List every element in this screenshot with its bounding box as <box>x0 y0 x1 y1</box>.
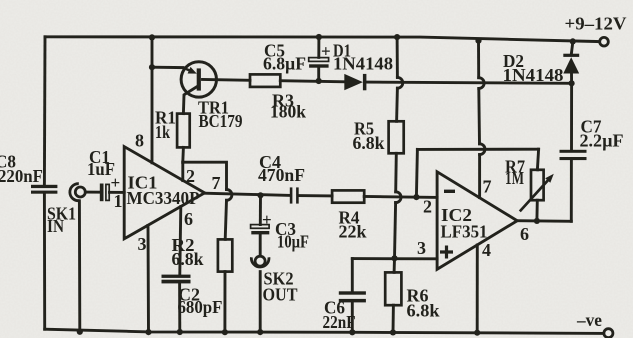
wire IC2 output <box>517 219 571 223</box>
capacitor C2 <box>162 275 223 318</box>
terminal -ve <box>576 310 613 338</box>
svg-text:3: 3 <box>417 238 426 258</box>
capacitor C6 <box>323 291 366 332</box>
wire pin7 into IC2 <box>478 155 481 198</box>
hop R5 line over D1 line <box>397 77 402 88</box>
wire pin7 mid <box>477 89 481 144</box>
wire left vertical lower <box>43 193 46 329</box>
wire IC2 pin4 to rail <box>476 245 479 333</box>
wire output riser to C7 <box>570 160 573 221</box>
wire base to R3 <box>203 78 251 82</box>
wire IC2 pin7 drop from rail <box>477 41 480 78</box>
wire pin3 corner down to C6 <box>351 259 354 292</box>
wire top rail <box>45 37 600 42</box>
svg-text:–ve: –ve <box>576 310 602 330</box>
jack SK2 <box>251 256 297 304</box>
svg-text:6.8k: 6.8k <box>353 133 385 153</box>
wire C7 top to D2 node <box>570 83 573 149</box>
svg-text:6: 6 <box>520 224 529 244</box>
svg-text:7: 7 <box>212 173 221 193</box>
svg-text:2: 2 <box>423 197 432 217</box>
op-amp IC1 <box>124 147 204 239</box>
svg-text:6.8k: 6.8k <box>172 249 204 269</box>
wire emitter feed <box>152 66 183 69</box>
svg-text:1N4148: 1N4148 <box>333 54 393 74</box>
svg-text:IN: IN <box>47 216 64 236</box>
wire IC2 pin3 run <box>352 257 437 260</box>
transistor TR1 <box>181 62 242 131</box>
svg-text:1M: 1M <box>505 168 524 188</box>
capacitor C4 <box>258 152 305 203</box>
svg-text:22nF: 22nF <box>323 312 356 332</box>
diode D2 <box>503 51 580 85</box>
wire C5 top <box>317 37 320 57</box>
wire C4 to R4 <box>299 194 333 197</box>
wire hop to R2 top <box>225 200 226 239</box>
wire SK1 ground <box>78 201 81 332</box>
resistor R3 <box>250 74 306 121</box>
hop pin7 line over feedback <box>480 144 485 155</box>
wire IC1 pin6 to C2 <box>180 207 181 275</box>
wire C2 bottom <box>178 284 181 333</box>
capacitor C1 <box>87 147 123 211</box>
wire R2 bottom <box>223 272 226 333</box>
wire pin8 into IC1 <box>151 67 154 163</box>
wire C6 bottom <box>351 302 354 332</box>
wire D1 cathode to D2 anode <box>366 82 571 83</box>
op-amp IC2 <box>437 172 517 269</box>
svg-text:3: 3 <box>138 234 147 254</box>
svg-text:1uF: 1uF <box>87 159 115 179</box>
svg-text:10µF: 10µF <box>277 232 309 252</box>
wire feedback to R7 <box>537 149 538 170</box>
wire D2 anode stub <box>570 74 573 84</box>
wire IC1 pin3 to rail <box>147 225 150 332</box>
svg-text:6.8k: 6.8k <box>407 301 440 321</box>
diode D1 <box>333 40 393 90</box>
resistor R2 <box>172 235 233 272</box>
svg-text:680pF: 680pF <box>178 297 223 317</box>
svg-text:1N4148: 1N4148 <box>503 65 564 85</box>
wire C3 to SK2 <box>259 234 262 254</box>
hop over output line <box>227 190 232 201</box>
resistor R1 <box>155 108 190 148</box>
svg-text:220nF: 220nF <box>0 166 43 186</box>
resistor R5 <box>353 119 404 154</box>
wire IC1 output to C4 <box>205 193 290 195</box>
svg-text:470nF: 470nF <box>258 165 305 185</box>
svg-text:OUT: OUT <box>263 285 298 305</box>
terminal +9-12V <box>565 13 627 46</box>
capacitor C5 <box>263 40 331 73</box>
svg-text:LF351: LF351 <box>441 221 488 241</box>
wire bottom rail <box>45 329 604 333</box>
svg-text:+9–12V: +9–12V <box>565 13 627 33</box>
wire SK1 to C1 <box>85 191 99 194</box>
wire left vertical upper <box>43 37 46 185</box>
wire R1 bottom <box>181 147 184 162</box>
resistor R6 <box>385 272 439 320</box>
wire loop pin2 to R2 <box>183 162 227 189</box>
svg-text:1: 1 <box>114 191 123 211</box>
wire C5 bottom <box>317 68 320 81</box>
wire R5 bottom <box>394 153 397 192</box>
wire R7 bottom <box>535 200 538 221</box>
wire pin2 stub <box>181 162 184 180</box>
wire R4 to IC2 pin2 <box>364 195 437 199</box>
capacitor C3 <box>251 210 309 252</box>
svg-text:BC179: BC179 <box>199 111 243 131</box>
wire pin8 drop from rail <box>151 37 154 67</box>
wire feedback top run <box>417 148 538 151</box>
svg-text:180k: 180k <box>270 102 306 122</box>
wire C3 branch <box>259 195 262 224</box>
svg-text:+: + <box>321 42 331 61</box>
wire SK2 ground <box>259 272 262 333</box>
svg-text:8: 8 <box>135 131 144 151</box>
svg-text:2: 2 <box>186 166 195 186</box>
wire feedback riser <box>416 149 417 197</box>
jack SK1 <box>47 184 85 236</box>
wire pin3 node to R6 <box>393 258 396 272</box>
wire hop to pin3 node <box>395 203 396 259</box>
wire collector to R1 <box>183 87 197 114</box>
wire hop to R5 top <box>395 88 399 121</box>
wire R3 to D1 <box>280 81 344 82</box>
wire R5 branch from rail <box>396 37 399 77</box>
wire D2 cathode to rail <box>571 42 572 54</box>
svg-text:1k: 1k <box>155 122 170 142</box>
wire C1 to IC1 pin1 <box>110 191 125 194</box>
svg-text:4: 4 <box>482 240 491 260</box>
resistor R7 (variable) <box>505 157 554 212</box>
svg-text:+: + <box>262 210 272 229</box>
capacitor C8 <box>0 152 57 194</box>
svg-text:MC3340P: MC3340P <box>127 188 200 208</box>
svg-text:2.2µF: 2.2µF <box>580 130 624 150</box>
svg-text:6: 6 <box>184 209 193 229</box>
svg-text:6.8µF: 6.8µF <box>263 54 306 74</box>
svg-text:22k: 22k <box>339 222 367 242</box>
capacitor C7 <box>560 117 624 161</box>
resistor R4 <box>332 190 366 241</box>
wire R6 bottom <box>392 305 395 332</box>
hop R5R6 line over signal line <box>396 192 401 203</box>
svg-text:7: 7 <box>483 177 492 197</box>
hop pin7 line over D1 line <box>479 78 484 89</box>
